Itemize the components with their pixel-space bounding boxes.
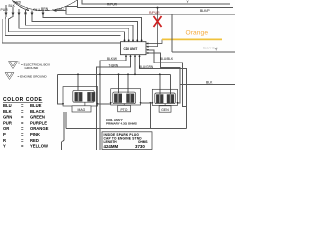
key switch body arc <box>12 0 77 11</box>
wire spark left 2 <box>99 74 101 150</box>
svg-text:424MM: 424MM <box>104 144 119 149</box>
wire Y right <box>172 51 235 53</box>
GEN center tap <box>164 104 166 106</box>
wire MAG spark 2 <box>62 112 65 150</box>
svg-text:GROUND: GROUND <box>25 66 40 70</box>
svg-text:BLK: BLK <box>3 109 12 114</box>
svg-text:BLK: BLK <box>9 4 16 8</box>
wire left drop to MAG <box>57 74 63 104</box>
CDI bottom pin dots <box>125 55 127 57</box>
MAG label box <box>72 106 91 112</box>
svg-text:PRIMARY 4.3Ω OHMS: PRIMARY 4.3Ω OHMS <box>106 121 137 125</box>
wire nested box 1 <box>149 50 187 107</box>
pin arrowhead 4 <box>24 13 27 17</box>
wire bus B <box>26 14 134 42</box>
CDI top pin dots <box>124 39 126 41</box>
wire spark bus <box>66 128 187 130</box>
svg-text:BLACK: BLACK <box>30 109 45 114</box>
wire orange (yellow line) <box>162 38 222 40</box>
wire Y drop <box>171 14 173 52</box>
wire pin BRN <box>42 11 44 14</box>
wire BLK right <box>180 83 235 85</box>
wire pin 3 <box>18 9 20 14</box>
wire top vertical x82 <box>82 0 230 4</box>
wire low bus GRD <box>2 19 120 43</box>
svg-text:PUR: PUR <box>1 8 9 12</box>
svg-text:ORANGE: ORANGE <box>30 126 49 131</box>
ground symbol electrical box <box>9 62 18 69</box>
svg-text:= ENGINE GROUND: = ENGINE GROUND <box>18 75 48 79</box>
pin arrowhead 3 <box>18 13 21 17</box>
node R/PUR junction <box>157 7 159 9</box>
MAG coil 1 <box>75 92 83 101</box>
svg-text:R: R <box>3 138 6 143</box>
svg-text:Y: Y <box>3 144 6 149</box>
GEN coil 1 <box>156 94 163 103</box>
wire BLU/GRN nested box 3 <box>140 57 187 129</box>
wire GEN feed 1 <box>159 74 161 94</box>
svg-text:CDI UNIT: CDI UNIT <box>124 47 138 51</box>
svg-text:BLUE: BLUE <box>30 103 42 108</box>
GEN coil 2 <box>167 94 174 103</box>
wire MAG-PTO link <box>98 103 111 105</box>
svg-text:OR: OR <box>3 126 9 131</box>
wire pin B <box>25 10 27 14</box>
wire PTO feed 1 <box>118 74 120 93</box>
PTO label box <box>118 105 131 111</box>
wire pin BLK <box>12 7 14 14</box>
svg-text:BLK: BLK <box>206 81 213 85</box>
wire link drop to spark bus <box>149 103 151 129</box>
svg-text:BLU/GRN: BLU/GRN <box>139 65 154 69</box>
wire bus 4 <box>19 14 129 42</box>
wire MAG top feed <box>77 74 79 90</box>
svg-text:GREEN: GREEN <box>30 115 45 120</box>
pin arrowhead 1 <box>5 13 8 17</box>
wire top corner x66 <box>66 5 78 7</box>
svg-text:RED: RED <box>30 138 39 143</box>
wire PTO-GEN link <box>141 102 153 104</box>
svg-text:R/PUR: R/PUR <box>107 2 118 6</box>
wire bus BLK/P long <box>66 6 235 14</box>
svg-text:GRN: GRN <box>3 115 12 120</box>
GEN label box <box>159 106 171 112</box>
wire GEN feed 2 <box>169 74 171 94</box>
wire MAG spark 1 <box>65 112 67 129</box>
MAG coil 2 <box>87 92 95 101</box>
CDI top pin ticks <box>125 40 142 42</box>
svg-text:BLU/BLK: BLU/BLK <box>160 57 174 61</box>
coil assembly GEN <box>151 89 178 112</box>
ground symbol engine <box>5 73 14 80</box>
svg-text:PINK: PINK <box>30 132 40 137</box>
svg-text:BLU: BLU <box>3 103 12 108</box>
svg-text:BLK/P: BLK/P <box>200 9 210 13</box>
GRN arrowhead <box>53 9 57 12</box>
wire bus PUR <box>5 14 120 35</box>
wire main lower bus <box>57 73 170 75</box>
svg-text:YELLOW: YELLOW <box>30 144 48 149</box>
wire CDI pin to bus <box>134 57 136 74</box>
wire T-BRN <box>97 57 131 150</box>
wire bus BLU <box>32 14 137 42</box>
wire PTO feed 2 <box>127 74 129 93</box>
pin arrowhead 6 <box>42 13 45 17</box>
svg-text:BLU: BLU <box>34 8 41 12</box>
wire nested box 2 <box>149 53 180 103</box>
PTO coil 2 <box>126 94 134 103</box>
MAG center tap <box>84 102 86 106</box>
svg-text:PUR: PUR <box>3 120 12 125</box>
table spark plug resistance <box>102 132 152 150</box>
svg-text:MAG: MAG <box>78 108 86 112</box>
junction dots lower bus <box>99 73 101 75</box>
wire orange elbow from CDI <box>149 39 162 43</box>
wire bus BRN <box>43 14 142 42</box>
CDI unit U1 <box>121 42 147 55</box>
svg-text:BRN: BRN <box>41 7 49 11</box>
svg-text:T-BRN: T-BRN <box>109 63 119 67</box>
PTO center tap <box>123 104 125 106</box>
PTO coil 1 <box>114 94 122 103</box>
CDI right pin dots <box>147 43 149 45</box>
wire pin BLU <box>31 11 33 15</box>
wire bus BLK <box>9 14 125 42</box>
svg-text:3730: 3730 <box>135 144 145 149</box>
svg-text:Orange: Orange <box>186 30 209 37</box>
wire pin PUR <box>5 5 7 14</box>
wire BLK/W <box>100 57 126 74</box>
color code legend <box>3 97 43 103</box>
red X cut mark <box>154 16 162 27</box>
CDI bottom pin ticks <box>126 55 140 57</box>
pin arrowhead 5 <box>31 13 34 17</box>
pin arrowhead 2 <box>12 13 15 17</box>
svg-text:PTO: PTO <box>121 108 128 112</box>
svg-text:R/PUR: R/PUR <box>149 11 160 15</box>
svg-text:PURPLE: PURPLE <box>30 120 47 125</box>
wire top vertical x77.5 <box>78 0 234 8</box>
wire GRN arrow stub <box>56 11 66 15</box>
svg-text:GEN: GEN <box>161 108 169 112</box>
svg-text:P: P <box>3 132 6 137</box>
coil assembly PTO <box>110 89 142 112</box>
coil assembly MAG <box>62 87 98 112</box>
svg-text:BLK/W: BLK/W <box>107 57 117 61</box>
wire R/PUR vertical <box>149 8 158 47</box>
key switch wiper arc <box>13 1 29 11</box>
CDI right pin ticks <box>146 44 149 54</box>
